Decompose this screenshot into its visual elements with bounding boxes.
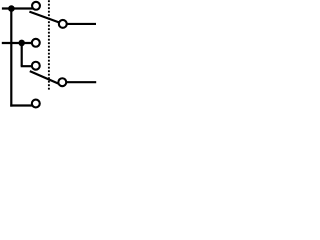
wire input stub B (middle left) [2,42,36,44]
wire branch horizontal to bottom-switch upper throw [21,65,36,67]
switch blade S1 (top pole) [29,12,60,23]
wire bottom run to lower throw contact [10,104,36,106]
wire output bottom right [62,81,96,83]
wire output top right [63,23,96,25]
mechanical link (dotted) [48,0,50,89]
contact circle: top switch common [59,20,67,28]
wire left bus vertical [10,9,12,107]
junction node A [8,5,15,12]
junction node B [18,40,25,47]
contact circle: bottom switch common [58,78,66,86]
switch blade S2 (bottom pole) [30,71,60,84]
wire input stub A (top left) [2,7,35,9]
contact circle: bottom switch lower throw [32,100,40,108]
wire branch vertical from node B [21,43,23,66]
contact circle: top switch lower throw [32,39,40,47]
background [0,0,100,112]
contact circle: top switch upper throw [32,2,40,10]
contact circle: bottom switch upper throw [32,62,40,70]
